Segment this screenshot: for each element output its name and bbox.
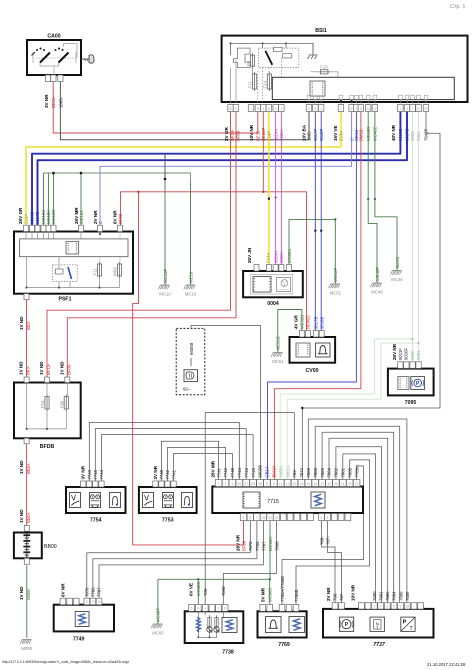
chime unit 7769 <box>258 576 307 648</box>
PSF1 internal busbar <box>20 239 128 257</box>
wire CE14 BSI1 to 7715 <box>268 112 357 481</box>
svg-text:7706: 7706 <box>255 541 260 551</box>
svg-text:Z13A: Z13A <box>24 214 29 224</box>
svg-text:6605B: 6605B <box>258 465 263 478</box>
svg-text:7780B: 7780B <box>294 589 299 602</box>
wire 9001 BSI1 to 7095 and 7715 9001A <box>418 112 420 363</box>
PSF1 internal wires <box>26 232 120 288</box>
svg-text:7842: 7842 <box>299 467 304 477</box>
ground ME10 <box>184 271 197 296</box>
svg-text:1V ND: 1V ND <box>19 509 24 523</box>
svg-text:7: 7 <box>218 482 220 486</box>
svg-text:4: 4 <box>262 107 264 111</box>
svg-text:7884: 7884 <box>392 591 397 601</box>
wire BF09 BSI1 to BFDB <box>67 112 236 378</box>
svg-text:1V ND: 1V ND <box>19 586 24 600</box>
svg-text:BE11-: BE11- <box>51 96 56 108</box>
wire 7889 loop to 7737 <box>322 432 394 602</box>
svg-text:14: 14 <box>300 482 304 486</box>
svg-text:BFDB: BFDB <box>40 444 55 450</box>
svg-text:9011F: 9011F <box>398 348 403 360</box>
svg-text:789-: 789- <box>292 468 297 477</box>
svg-text:9017P: 9017P <box>313 128 318 141</box>
svg-text:3V NR: 3V NR <box>44 94 49 108</box>
svg-text:32: 32 <box>405 605 409 609</box>
svg-text:22: 22 <box>348 482 352 486</box>
wire 7880 loop to 7769 <box>296 460 370 605</box>
wire 6605B to 7715 <box>191 325 261 480</box>
svg-text:9000A: 9000A <box>278 465 283 478</box>
svg-text:3: 3 <box>406 107 408 111</box>
svg-text:http://127.0.0.1:6093/Sdr/svgL: http://127.0.0.1:6093/Sdr/svgLoader?r_co… <box>2 660 129 664</box>
svg-text:7888: 7888 <box>313 467 318 477</box>
svg-text:8: 8 <box>418 107 420 111</box>
svg-text:MC60A: MC60A <box>268 537 273 551</box>
svg-text:2: 2 <box>231 482 233 486</box>
svg-text:7881: 7881 <box>378 591 383 601</box>
svg-text:BF08: BF08 <box>118 213 123 224</box>
svg-text:BE56D: BE56D <box>306 315 311 329</box>
svg-text:787-: 787- <box>339 592 344 601</box>
module 7095 <box>388 343 434 406</box>
svg-text:30: 30 <box>229 107 233 111</box>
svg-text:BF13-: BF13- <box>46 363 51 375</box>
wire 7744 7715 to 7754 <box>89 422 239 481</box>
fuse F13 BFDB <box>45 397 49 410</box>
control panel 7738 <box>185 581 244 655</box>
svg-text:15: 15 <box>306 482 310 486</box>
svg-text:5: 5 <box>191 607 193 611</box>
wire 7869 loop to 7737 <box>308 419 407 603</box>
svg-text:MC10: MC10 <box>159 292 171 297</box>
svg-text:1V ND: 1V ND <box>19 460 24 474</box>
svg-text:9017B: 9017B <box>35 211 40 224</box>
svg-text:1V ND: 1V ND <box>19 316 24 330</box>
svg-text:MC10P: MC10P <box>163 269 168 283</box>
svg-text:6V VE: 6V VE <box>189 583 194 596</box>
svg-text:66--: 66-- <box>183 387 191 392</box>
wire 7870 7715 to 7749 <box>87 521 251 598</box>
ground MC46 ME46P <box>370 267 383 295</box>
svg-text:B03-: B03- <box>26 320 31 330</box>
wire ME52B CV00 to ground MC51 <box>278 310 302 353</box>
wire ME10 ground bus <box>43 173 45 226</box>
wire 9024A BSI1 to 0004 <box>275 112 277 265</box>
svg-text:BF08: BF08 <box>242 540 247 551</box>
svg-text:7744: 7744 <box>237 467 242 477</box>
svg-text:7741: 7741 <box>171 469 176 479</box>
svg-text:7754: 7754 <box>90 518 102 524</box>
svg-text:7889: 7889 <box>320 467 325 477</box>
BSI1 internal wires <box>231 58 427 112</box>
svg-text:6: 6 <box>355 107 357 111</box>
svg-text:19: 19 <box>327 482 331 486</box>
svg-text:6V NR: 6V NR <box>60 583 65 597</box>
svg-text:16: 16 <box>313 482 317 486</box>
svg-text:BF09-: BF09- <box>66 363 71 375</box>
svg-text:MC46E: MC46E <box>373 127 378 141</box>
fuse F09 BFDB <box>64 397 68 410</box>
svg-text:0004: 0004 <box>267 301 279 307</box>
switch panel 7737 <box>323 584 434 648</box>
svg-text:28V MR: 28V MR <box>210 460 215 477</box>
svg-text:7742: 7742 <box>165 469 170 479</box>
svg-text:23: 23 <box>355 482 359 486</box>
svg-text:1: 1 <box>320 107 322 111</box>
wire 7707 7715 to 7749 <box>99 521 263 598</box>
relay inside BSI1 <box>258 48 298 68</box>
svg-text:7889: 7889 <box>405 591 410 601</box>
speaker 7749 <box>54 583 114 643</box>
wire 9017B trunk BSI1 to PSF1 <box>38 112 408 226</box>
page number <box>450 4 465 10</box>
svg-text:MC10N: MC10N <box>51 209 56 224</box>
svg-text:2: 2 <box>86 600 88 604</box>
wire MC004 to ground MC51 <box>289 219 335 284</box>
svg-text:2: 2 <box>218 607 220 611</box>
svg-text:9: 9 <box>257 107 259 111</box>
svg-text:7870: 7870 <box>84 587 89 597</box>
wire MC10P branch <box>164 154 166 179</box>
wire 9015B trunk BSI1 to PSF1 9018B <box>32 112 400 226</box>
svg-text:7: 7 <box>380 605 382 609</box>
wire 7888 loop to 7737 <box>315 426 400 602</box>
wire 7884 loop to 7737 <box>329 438 388 602</box>
svg-text:3: 3 <box>92 600 94 604</box>
7738 internals <box>198 611 223 638</box>
svg-text:10: 10 <box>268 516 272 520</box>
svg-text:2: 2 <box>327 516 329 520</box>
wire 7881 loop to 7737 <box>343 454 376 603</box>
svg-text:PSF1: PSF1 <box>59 297 72 303</box>
svg-text:8: 8 <box>360 107 362 111</box>
svg-text:ME10: ME10 <box>188 271 193 283</box>
svg-text:7890: 7890 <box>274 541 279 551</box>
svg-text:7707: 7707 <box>261 541 266 551</box>
svg-text:7842P: 7842P <box>424 128 429 141</box>
svg-text:28: 28 <box>251 482 255 486</box>
svg-text:7744: 7744 <box>99 469 104 479</box>
svg-text:9001: 9001 <box>416 131 421 141</box>
wire 9017P BSI1 to CV00 <box>314 112 316 331</box>
svg-text:9024A: 9024A <box>273 250 278 263</box>
svg-text:6: 6 <box>273 482 275 486</box>
svg-text:CA00: CA00 <box>47 34 60 40</box>
svg-text:26: 26 <box>237 482 241 486</box>
svg-text:7780A/7780B: 7780A/7780B <box>280 576 285 602</box>
svg-text:28V NR: 28V NR <box>236 534 241 551</box>
svg-text:2: 2 <box>399 107 401 111</box>
svg-text:Z14P: Z14P <box>267 131 272 141</box>
svg-text:7740: 7740 <box>159 469 164 479</box>
svg-text:1: 1 <box>250 107 252 111</box>
svg-text:7745: 7745 <box>251 467 256 477</box>
svg-text:1V ND: 1V ND <box>59 361 64 375</box>
svg-text:Z13A: Z13A <box>339 131 344 141</box>
fuse box PSF1 <box>14 207 133 330</box>
wire Z13A PSF1 to BSI1 <box>26 112 341 226</box>
svg-text:21: 21 <box>341 482 345 486</box>
svg-text:MC10: MC10 <box>185 292 197 297</box>
wire 7882 loop to 7737 <box>336 447 382 603</box>
svg-text:M000: M000 <box>26 589 31 600</box>
svg-text:9000: 9000 <box>410 350 415 360</box>
svg-text:7749: 7749 <box>73 637 85 643</box>
svg-text:MF8: MF8 <box>113 267 118 276</box>
svg-text:7880: 7880 <box>347 467 352 477</box>
svg-text:F09: F09 <box>59 400 64 408</box>
svg-text:7706: 7706 <box>91 587 96 597</box>
wire M000 BB00 to ground <box>26 565 28 638</box>
7737 icons <box>339 617 353 631</box>
svg-text:5: 5 <box>266 482 268 486</box>
svg-text:7881: 7881 <box>341 467 346 477</box>
svg-text:MC60C: MC60C <box>267 587 272 602</box>
ground MC60 <box>151 608 164 636</box>
svg-text:P: P <box>403 620 407 626</box>
svg-text:BE08P: BE08P <box>261 127 266 141</box>
BSI1 pin row <box>228 105 234 112</box>
svg-text:MC51: MC51 <box>330 291 342 296</box>
fuse F6 <box>250 55 254 66</box>
svg-text:5: 5 <box>314 107 316 111</box>
BSI1 internal ground <box>312 43 314 54</box>
wire 788 7715 to 7737 <box>322 521 336 603</box>
svg-text:9: 9 <box>235 107 237 111</box>
svg-text:13: 13 <box>293 482 297 486</box>
svg-text:BF09-: BF09- <box>235 129 240 141</box>
svg-text:6V NR: 6V NR <box>112 210 117 224</box>
svg-text:787-: 787- <box>326 536 331 545</box>
svg-text:ME52B: ME52B <box>300 315 305 329</box>
buzzer module CV00 <box>290 315 336 374</box>
footer url <box>2 660 129 664</box>
svg-text:7888: 7888 <box>398 591 403 601</box>
control unit BSI1 <box>222 28 468 141</box>
svg-text:2: 2 <box>280 107 282 111</box>
svg-text:26V GR: 26V GR <box>18 207 23 224</box>
svg-text:9018P: 9018P <box>319 128 324 141</box>
svg-text:3: 3 <box>386 605 388 609</box>
svg-text:1V ND: 1V ND <box>39 361 44 375</box>
svg-text:1065-: 1065- <box>58 96 63 108</box>
fuse box BFDB <box>14 361 81 474</box>
svg-text:17: 17 <box>320 482 324 486</box>
svg-text:CV00: CV00 <box>306 368 319 374</box>
svg-text:8: 8 <box>249 516 251 520</box>
wire BF08 supply rail <box>121 192 307 331</box>
wire 787 7715 to 7737 <box>328 521 342 603</box>
svg-text:1V ND: 1V ND <box>19 361 24 375</box>
svg-text:7715: 7715 <box>267 499 279 505</box>
svg-text:32: 32 <box>275 516 279 520</box>
svg-text:6: 6 <box>275 107 277 111</box>
svg-text:MC60P: MC60P <box>156 608 161 622</box>
option component 6605B <box>176 328 205 394</box>
footer date <box>427 662 466 667</box>
svg-text:12: 12 <box>373 107 377 111</box>
ground MC51 ME52B <box>271 336 284 364</box>
svg-text:7869: 7869 <box>306 467 311 477</box>
indicator cluster 7753 <box>139 465 197 523</box>
fuse MF8 PSF1 <box>117 264 121 276</box>
svg-text:5V MR: 5V MR <box>260 587 265 602</box>
wire 9018P BSI1 to CV00 <box>320 112 322 331</box>
svg-text:F13: F13 <box>320 65 328 70</box>
wire B04A BFDB to BB00 <box>26 444 28 525</box>
diagnostic connector 0004 <box>243 247 303 307</box>
svg-text:F6: F6 <box>246 60 251 66</box>
7715 bottom pin row <box>240 514 246 521</box>
svg-text:26V JN: 26V JN <box>247 247 252 263</box>
PSF1 relay <box>53 265 78 282</box>
svg-text:7880: 7880 <box>372 591 377 601</box>
svg-text:10V NR: 10V NR <box>350 584 355 601</box>
svg-text:3V NR: 3V NR <box>153 465 158 479</box>
svg-text:1: 1 <box>204 607 206 611</box>
svg-text:3V NR: 3V NR <box>81 465 86 479</box>
svg-text:789-: 789- <box>203 587 208 596</box>
svg-text:4: 4 <box>321 516 323 520</box>
svg-text:9024A: 9024A <box>273 128 278 141</box>
svg-text:11: 11 <box>366 107 370 111</box>
svg-text:9015B: 9015B <box>398 128 403 141</box>
svg-text:7882: 7882 <box>334 467 339 477</box>
svg-text:6: 6 <box>224 607 226 611</box>
svg-text:B04A: B04A <box>26 512 31 523</box>
7715 top pin row <box>215 480 222 487</box>
wire 7890 7715 to 7738 <box>223 521 276 605</box>
svg-text:7870: 7870 <box>248 541 253 551</box>
svg-text:9017B: 9017B <box>405 128 410 141</box>
ground M000 <box>20 640 33 652</box>
wire 7745 7715 to 7754 <box>101 435 253 481</box>
svg-text:7740: 7740 <box>230 467 235 477</box>
svg-text:1: 1 <box>340 107 342 111</box>
wire B03 PSF1 to BFDB <box>26 300 28 378</box>
svg-text:7: 7 <box>256 516 258 520</box>
fuse F14 <box>267 74 271 89</box>
wire MC60 ground bus <box>269 521 271 579</box>
wire 9000 BSI1 to 7095 and 7715 9000A <box>412 112 414 363</box>
fuse F11 PSF1 <box>97 264 101 276</box>
display unit 7715 <box>210 460 363 551</box>
svg-text:7786A: 7786A <box>354 465 359 478</box>
wire BF13 BSI1 to BFDB <box>47 112 231 378</box>
ground MC46 second <box>390 256 403 282</box>
BSI1 internal connector outline <box>234 48 251 68</box>
wire 7842P BSI1 to 7715 7842 <box>302 112 440 481</box>
svg-text:7742: 7742 <box>223 467 228 477</box>
svg-text:10V NR: 10V NR <box>249 124 254 141</box>
svg-text:7743: 7743 <box>87 469 92 479</box>
svg-text:9018B: 9018B <box>320 316 325 329</box>
key symbol <box>81 55 94 63</box>
svg-text:1: 1 <box>373 605 375 609</box>
svg-text:9: 9 <box>400 605 402 609</box>
svg-text:40V NR: 40V NR <box>391 124 396 141</box>
svg-text:MC52P: MC52P <box>333 268 338 282</box>
svg-text:P: P <box>345 622 349 628</box>
svg-text:7743: 7743 <box>244 467 249 477</box>
svg-text:F11: F11 <box>248 81 253 89</box>
svg-text:1: 1 <box>243 516 245 520</box>
svg-text:788-: 788- <box>320 536 325 545</box>
svg-text:6: 6 <box>98 600 100 604</box>
svg-text:ME46D: ME46D <box>366 127 371 141</box>
svg-text:9001A: 9001A <box>285 465 290 478</box>
svg-text:9000: 9000 <box>410 131 415 141</box>
svg-text:11: 11 <box>279 482 283 486</box>
wire BE11 CA00 to BSI1 <box>53 82 258 133</box>
svg-text:32: 32 <box>424 107 428 111</box>
svg-text:16V VE: 16V VE <box>333 125 338 141</box>
svg-text:7745: 7745 <box>93 469 98 479</box>
svg-text:ME52B: ME52B <box>276 336 281 350</box>
wire 9025A BSI1 to 0004 <box>280 112 282 265</box>
svg-text:9018B: 9018B <box>30 211 35 224</box>
svg-text:BSI1: BSI1 <box>315 28 327 34</box>
svg-text:Стр. 1: Стр. 1 <box>450 4 465 10</box>
svg-text:9010F: 9010F <box>404 347 409 360</box>
svg-text:8: 8 <box>268 107 270 111</box>
svg-text:7095: 7095 <box>405 400 417 406</box>
svg-text:9001: 9001 <box>416 350 421 360</box>
ignition switch CA00 <box>27 34 94 109</box>
svg-text:21.10.2017 22:41:08: 21.10.2017 22:41:08 <box>427 662 466 667</box>
wire BM10 BSI1 to 7715 <box>274 112 361 481</box>
svg-text:CE14-: CE14- <box>265 465 270 478</box>
wire BE08P BSI1 drop <box>262 112 264 192</box>
svg-text:MC51: MC51 <box>272 359 284 364</box>
svg-text:9025A: 9025A <box>279 250 284 263</box>
svg-text:27: 27 <box>244 482 248 486</box>
svg-text:MC46: MC46 <box>395 256 400 268</box>
ground MC51 MC52P <box>329 268 342 296</box>
wire 7786A loop to 7769 <box>282 466 364 605</box>
svg-text:2V NR: 2V NR <box>326 587 331 601</box>
svg-text:18: 18 <box>258 482 262 486</box>
ground MC10P <box>158 269 171 297</box>
wire 1065 CA00 to BSI1 <box>60 82 309 140</box>
svg-text:7882: 7882 <box>385 591 390 601</box>
svg-text:C: C <box>98 221 103 224</box>
svg-text:BM10-: BM10- <box>359 128 364 141</box>
svg-text:M000: M000 <box>21 646 32 651</box>
svg-text:MC60D: MC60D <box>196 581 201 596</box>
svg-text:7890: 7890 <box>221 586 226 596</box>
wire 7743 7715 to 7754 <box>95 429 246 482</box>
svg-text:F13: F13 <box>40 400 45 408</box>
svg-text:Z14A: Z14A <box>266 253 271 263</box>
indicator cluster 7754 <box>66 465 126 523</box>
svg-text:BF13-: BF13- <box>230 129 235 141</box>
svg-text:5: 5 <box>393 605 395 609</box>
svg-text:4V GR: 4V GR <box>294 315 299 329</box>
svg-text:7741: 7741 <box>216 467 221 477</box>
svg-text:20: 20 <box>334 482 338 486</box>
svg-text:26V NR: 26V NR <box>392 343 397 360</box>
wire 7741 7715 to 7753 <box>161 441 218 481</box>
svg-text:ME10J: ME10J <box>79 211 84 224</box>
svg-text:F14: F14 <box>262 80 267 88</box>
svg-text:7753: 7753 <box>162 518 174 524</box>
svg-text:MC004: MC004 <box>287 249 292 263</box>
svg-text:7737: 7737 <box>373 642 386 648</box>
wire ME46D to ground MC46 <box>368 112 377 284</box>
wire 7742 7715 to 7753 <box>168 447 226 481</box>
svg-text:788-: 788- <box>333 592 338 601</box>
